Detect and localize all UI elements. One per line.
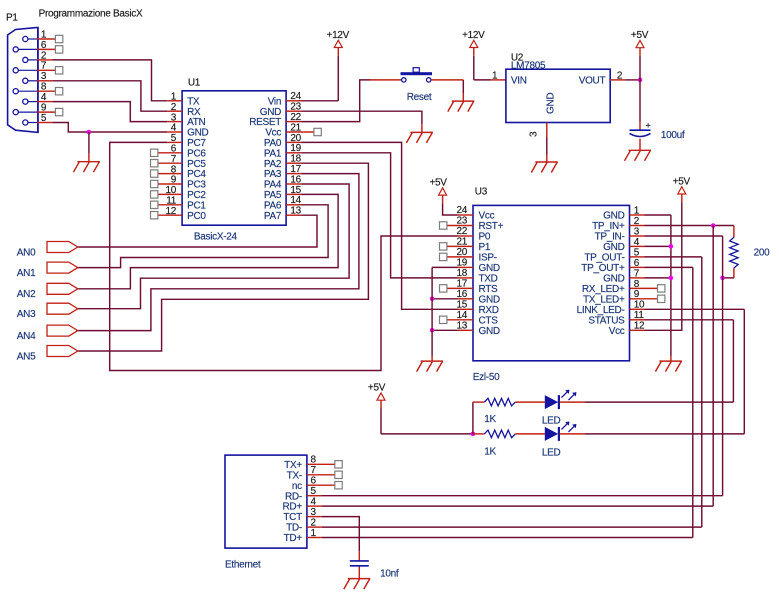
svg-text:TX: TX	[187, 96, 200, 107]
svg-text:22: 22	[456, 226, 467, 237]
svg-text:AN1: AN1	[17, 268, 36, 279]
svg-text:24: 24	[290, 91, 301, 102]
svg-text:18: 18	[456, 268, 467, 279]
svg-text:GND: GND	[479, 263, 500, 274]
svg-text:12: 12	[634, 321, 645, 332]
svg-text:GND: GND	[603, 242, 624, 253]
svg-text:PC2: PC2	[187, 190, 206, 201]
svg-text:1K: 1K	[484, 447, 496, 458]
svg-text:Vin: Vin	[268, 96, 281, 107]
svg-text:+5V: +5V	[673, 177, 691, 188]
svg-text:GND: GND	[546, 93, 557, 114]
svg-text:GND: GND	[479, 294, 500, 305]
svg-text:Ethernet: Ethernet	[225, 560, 261, 571]
svg-text:+5V: +5V	[368, 383, 386, 394]
svg-text:7: 7	[311, 465, 317, 476]
svg-text:18: 18	[290, 154, 301, 165]
svg-text:STATUS: STATUS	[588, 315, 625, 326]
svg-text:Vcc: Vcc	[609, 326, 625, 337]
svg-text:RESET: RESET	[249, 117, 281, 128]
svg-text:PA5: PA5	[264, 190, 282, 201]
svg-text:6: 6	[311, 476, 317, 487]
svg-text:PA2: PA2	[264, 159, 282, 170]
svg-text:Ezl-50: Ezl-50	[473, 372, 500, 383]
svg-text:Reset: Reset	[407, 92, 432, 103]
svg-text:GND: GND	[479, 326, 500, 337]
svg-text:+5V: +5V	[430, 178, 448, 189]
svg-text:GND: GND	[603, 211, 624, 222]
svg-text:RD+: RD+	[283, 502, 303, 513]
svg-text:14: 14	[456, 310, 467, 321]
svg-text:11: 11	[634, 310, 645, 321]
svg-text:RXD: RXD	[479, 305, 499, 316]
svg-text:TXD: TXD	[479, 274, 498, 285]
svg-text:TP_OUT+: TP_OUT+	[581, 263, 625, 274]
svg-text:PC0: PC0	[187, 211, 206, 222]
svg-text:U3: U3	[475, 186, 488, 197]
svg-text:6: 6	[634, 258, 640, 269]
svg-text:PC1: PC1	[187, 200, 206, 211]
svg-text:PA7: PA7	[264, 211, 282, 222]
svg-text:nc: nc	[292, 481, 302, 492]
svg-text:8: 8	[171, 164, 177, 175]
svg-text:7: 7	[634, 268, 640, 279]
svg-text:16: 16	[456, 289, 467, 300]
svg-text:GND: GND	[187, 128, 208, 139]
svg-text:3: 3	[634, 226, 640, 237]
svg-text:15: 15	[456, 299, 467, 310]
svg-text:24: 24	[456, 205, 467, 216]
svg-text:3: 3	[311, 507, 317, 518]
svg-text:2: 2	[311, 518, 317, 529]
svg-text:P1: P1	[479, 242, 491, 253]
svg-text:LED: LED	[542, 447, 561, 458]
svg-text:4: 4	[171, 123, 177, 134]
svg-text:PA0: PA0	[264, 138, 282, 149]
svg-text:PC3: PC3	[187, 180, 206, 191]
svg-text:+5V: +5V	[631, 30, 649, 41]
svg-text:10nf: 10nf	[380, 569, 399, 580]
svg-text:P1: P1	[6, 12, 18, 23]
svg-text:7: 7	[171, 154, 177, 165]
svg-text:P0: P0	[479, 232, 491, 243]
svg-text:11: 11	[166, 196, 177, 207]
svg-text:AN3: AN3	[17, 309, 36, 320]
svg-text:19: 19	[456, 258, 467, 269]
svg-text:10: 10	[165, 185, 176, 196]
svg-text:4: 4	[634, 237, 640, 248]
svg-text:PC4: PC4	[187, 169, 206, 180]
svg-text:23: 23	[290, 102, 301, 113]
svg-text:1: 1	[634, 205, 640, 216]
svg-text:U1: U1	[188, 77, 201, 88]
svg-text:PA3: PA3	[264, 169, 282, 180]
svg-text:AN4: AN4	[17, 331, 36, 342]
svg-text:17: 17	[290, 164, 301, 175]
svg-text:6: 6	[171, 144, 177, 155]
svg-text:21: 21	[456, 237, 467, 248]
svg-text:BasicX-24: BasicX-24	[194, 231, 238, 242]
svg-text:RTS: RTS	[479, 284, 499, 295]
svg-text:PC6: PC6	[187, 148, 206, 159]
svg-text:VIN: VIN	[511, 76, 527, 87]
svg-text:LED: LED	[542, 415, 561, 426]
svg-text:1: 1	[492, 70, 498, 81]
svg-text:PC5: PC5	[187, 159, 206, 170]
svg-text:1: 1	[171, 92, 177, 103]
svg-text:Vcc: Vcc	[479, 211, 495, 222]
svg-text:TX+: TX+	[284, 460, 302, 471]
svg-text:1: 1	[311, 528, 317, 539]
svg-text:TCT: TCT	[283, 512, 302, 523]
svg-text:RD-: RD-	[285, 491, 302, 502]
svg-text:RX: RX	[187, 107, 201, 118]
svg-text:15: 15	[290, 185, 301, 196]
svg-text:2: 2	[634, 216, 640, 227]
svg-text:8: 8	[311, 455, 317, 466]
svg-text:PA6: PA6	[264, 200, 282, 211]
svg-text:13: 13	[456, 320, 467, 331]
svg-text:5: 5	[311, 486, 317, 497]
svg-text:GND: GND	[603, 274, 624, 285]
svg-text:19: 19	[290, 143, 301, 154]
svg-text:1K: 1K	[484, 414, 496, 425]
svg-text:TX-: TX-	[287, 470, 302, 481]
svg-text:PA1: PA1	[264, 148, 282, 159]
svg-text:20: 20	[456, 247, 467, 258]
svg-text:RST+: RST+	[479, 221, 504, 232]
svg-text:9: 9	[171, 175, 177, 186]
svg-text:Vcc: Vcc	[265, 128, 281, 139]
svg-text:TP_OUT-: TP_OUT-	[584, 253, 624, 264]
svg-text:8: 8	[634, 279, 640, 290]
svg-text:200: 200	[754, 247, 771, 258]
svg-text:21: 21	[290, 122, 301, 133]
svg-text:TP_IN+: TP_IN+	[592, 221, 625, 232]
svg-text:TD-: TD-	[286, 523, 302, 534]
svg-text:10: 10	[634, 300, 645, 311]
svg-text:23: 23	[456, 216, 467, 227]
svg-text:LINK_LED-: LINK_LED-	[577, 305, 625, 316]
svg-text:5: 5	[171, 133, 177, 144]
svg-text:TX_LED+: TX_LED+	[583, 294, 625, 305]
svg-text:17: 17	[456, 279, 467, 290]
svg-text:2: 2	[171, 102, 177, 113]
svg-text:+12V: +12V	[462, 30, 485, 41]
svg-text:20: 20	[290, 133, 301, 144]
svg-text:TD+: TD+	[284, 533, 303, 544]
svg-text:13: 13	[290, 206, 301, 217]
svg-text:3: 3	[529, 131, 540, 137]
svg-text:100uf: 100uf	[661, 130, 685, 141]
svg-text:AN2: AN2	[17, 289, 36, 300]
svg-text:3: 3	[171, 112, 177, 123]
svg-text:AN5: AN5	[17, 351, 36, 362]
svg-text:VOUT: VOUT	[579, 76, 606, 87]
svg-text:+: +	[646, 121, 651, 131]
svg-text:TP_IN-: TP_IN-	[595, 232, 625, 243]
svg-text:ISP-: ISP-	[479, 253, 497, 264]
svg-text:PA4: PA4	[264, 180, 282, 191]
svg-text:14: 14	[290, 195, 301, 206]
svg-text:RX_LED+: RX_LED+	[582, 284, 625, 295]
svg-text:12: 12	[165, 206, 176, 217]
svg-text:PC7: PC7	[187, 138, 206, 149]
svg-text:LM7805: LM7805	[511, 61, 546, 72]
svg-text:16: 16	[290, 174, 301, 185]
svg-text:22: 22	[290, 112, 301, 123]
svg-text:4: 4	[311, 497, 317, 508]
svg-text:GND: GND	[260, 107, 281, 118]
svg-text:Programmazione BasicX: Programmazione BasicX	[39, 8, 143, 19]
svg-text:ATN: ATN	[187, 117, 205, 128]
svg-text:AN0: AN0	[17, 247, 36, 258]
svg-text:9: 9	[634, 289, 640, 300]
svg-text:5: 5	[634, 247, 640, 258]
svg-text:+12V: +12V	[327, 30, 350, 41]
svg-text:CTS: CTS	[479, 315, 499, 326]
